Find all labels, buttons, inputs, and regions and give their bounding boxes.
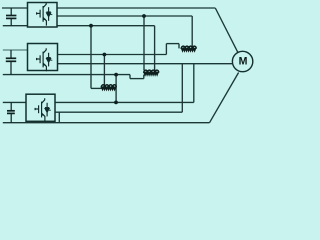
svg-text:M: M [239,56,248,68]
